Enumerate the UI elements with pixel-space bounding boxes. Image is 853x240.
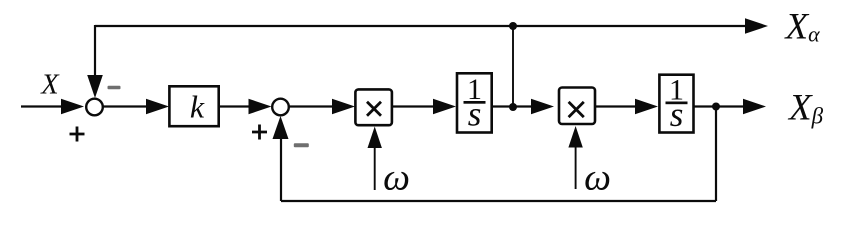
wire omega input 1 bbox=[374, 147, 376, 190]
arrowhead into multiplier 2 bbox=[531, 99, 554, 115]
multiply cross symbol 1 bbox=[367, 102, 381, 116]
svg-text:Xα: Xα bbox=[784, 7, 821, 48]
wire top feedback line bbox=[95, 25, 748, 27]
wire vertical drop from top line to summer 1 bbox=[94, 25, 96, 78]
wire integrator2 to output bbox=[694, 105, 745, 107]
block integrator 1 bbox=[457, 73, 492, 132]
wire bottom feedback line bbox=[281, 200, 716, 202]
block multiplier 2 bbox=[559, 88, 595, 125]
wire multiplier1 to integrator1 bbox=[392, 105, 435, 107]
svg-text:s: s bbox=[468, 95, 482, 134]
arrowhead into integrator 2 bbox=[635, 99, 658, 115]
arrowhead into multiplier 1 bbox=[332, 99, 355, 115]
minus sign at summer 2 bbox=[294, 143, 309, 147]
arrowhead output X beta bbox=[743, 99, 766, 115]
multiply cross symbol 2 bbox=[569, 102, 584, 117]
svg-text:ω: ω bbox=[584, 157, 611, 199]
block k bbox=[169, 86, 218, 126]
arrowhead output X alpha bbox=[745, 18, 768, 34]
svg-text:s: s bbox=[670, 95, 684, 134]
wire summer1 to k bbox=[104, 105, 150, 107]
block integrator 2 bbox=[659, 75, 693, 133]
svg-text:X: X bbox=[40, 70, 60, 101]
wire input X bbox=[21, 105, 62, 107]
wire multiplier2 to integrator2 bbox=[596, 105, 639, 107]
svg-text:ω: ω bbox=[383, 157, 410, 199]
arrowhead up into summer 2 bbox=[273, 116, 289, 139]
wire k to summer2 bbox=[219, 105, 251, 107]
wire branch down from node B bbox=[715, 107, 717, 202]
fraction bar of integrator 1 bbox=[464, 101, 486, 104]
arrowhead omega 2 bbox=[568, 126, 582, 148]
arrowhead input into summer 1 bbox=[61, 99, 84, 115]
svg-text:Xβ: Xβ bbox=[787, 88, 824, 129]
svg-text:k: k bbox=[190, 89, 205, 125]
node junction dot on top line bbox=[509, 22, 517, 30]
wire omega input 2 bbox=[575, 147, 577, 189]
arrowhead into k bbox=[146, 99, 169, 115]
summer 1 circle bbox=[86, 99, 103, 116]
fraction bar of integrator 2 bbox=[666, 102, 688, 105]
arrowhead down into summer 1 bbox=[87, 75, 103, 98]
arrowhead into integrator 1 bbox=[433, 99, 456, 115]
plus sign at summer 2 bbox=[252, 125, 267, 140]
summer 2 circle bbox=[272, 99, 289, 116]
arrowhead into summer 2 bbox=[249, 99, 272, 115]
wire summer2 to multiplier 1 bbox=[290, 105, 335, 107]
block multiplier 1 bbox=[355, 89, 392, 125]
arrowhead omega 1 bbox=[368, 127, 382, 149]
node A junction dot bbox=[509, 103, 517, 111]
wire branch up from node A to top line bbox=[512, 26, 514, 107]
wire integrator1 to multiplier2 bbox=[492, 105, 533, 107]
node B junction dot bbox=[712, 103, 720, 111]
wire bottom feedback up into summer 2 bbox=[280, 139, 282, 201]
plus sign at summer 1 bbox=[70, 127, 85, 142]
minus sign at summer 1 bbox=[108, 86, 121, 90]
